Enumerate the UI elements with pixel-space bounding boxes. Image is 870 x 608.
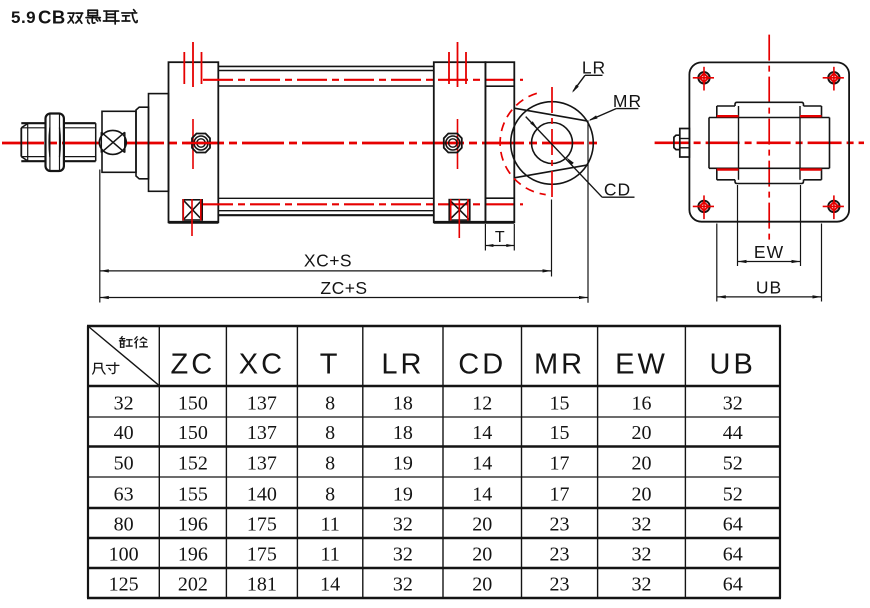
- table header diagonal: [89, 327, 159, 385]
- mounting hole bottom-right: [823, 195, 844, 219]
- gland step block: [136, 107, 149, 179]
- svg-text:80: 80: [114, 514, 134, 536]
- svg-text:20: 20: [632, 484, 652, 506]
- svg-text:MR: MR: [613, 91, 642, 111]
- clevis bottom cap (rear view): [735, 180, 804, 184]
- piston rod threaded section: [64, 123, 96, 161]
- svg-text:50: 50: [114, 453, 134, 475]
- svg-text:19: 19: [393, 484, 413, 506]
- front cap hex nut: [186, 134, 216, 153]
- main centerline (side view axis): [2, 142, 601, 145]
- svg-text:44: 44: [723, 422, 743, 444]
- svg-text:14: 14: [472, 484, 492, 506]
- svg-text:20: 20: [472, 574, 492, 596]
- mounting hole top-left: [693, 67, 714, 91]
- title "5.9 CB": [11, 7, 66, 28]
- svg-text:23: 23: [550, 544, 570, 566]
- svg-text:32: 32: [393, 544, 413, 566]
- svg-text:175: 175: [247, 514, 277, 536]
- rear cap bottom tie-rod nut X: [449, 199, 470, 238]
- svg-text:32: 32: [723, 393, 743, 415]
- red shoulder hatch lines: [717, 116, 822, 169]
- svg-text:20: 20: [632, 422, 652, 444]
- svg-text:32: 32: [632, 544, 652, 566]
- svg-text:17: 17: [550, 484, 570, 506]
- svg-text:64: 64: [723, 574, 743, 596]
- svg-text:23: 23: [550, 574, 570, 596]
- svg-text:155: 155: [178, 484, 208, 506]
- dimension table grid: [87, 326, 781, 598]
- svg-text:15: 15: [550, 422, 570, 444]
- svg-text:100: 100: [109, 544, 139, 566]
- svg-text:EW: EW: [754, 242, 784, 262]
- dimension T: [485, 224, 514, 251]
- svg-text:8: 8: [325, 393, 335, 415]
- svg-text:32: 32: [632, 514, 652, 536]
- mounting hole bottom-left: [693, 195, 714, 219]
- pivot vertical centerline: [551, 87, 553, 200]
- svg-text:11: 11: [320, 514, 339, 536]
- svg-text:ZC: ZC: [171, 349, 216, 381]
- svg-text:14: 14: [472, 422, 492, 444]
- svg-text:CD: CD: [604, 179, 631, 199]
- clevis body (rear view): [709, 106, 830, 180]
- label CD with diameter leader: [526, 117, 635, 200]
- dimension XC+S: [100, 170, 552, 303]
- svg-text:40: 40: [114, 422, 134, 444]
- svg-text:23: 23: [550, 514, 570, 536]
- svg-text:137: 137: [247, 422, 277, 444]
- svg-text:LR: LR: [381, 349, 424, 381]
- header cell CJK 缸径: [119, 337, 147, 348]
- svg-text:196: 196: [178, 544, 208, 566]
- svg-text:20: 20: [472, 514, 492, 536]
- clevis bracket plate: [485, 62, 514, 222]
- tie rod centerline bottom: [203, 203, 523, 205]
- piston rod threaded tip: [21, 123, 45, 161]
- svg-text:137: 137: [247, 453, 277, 475]
- svg-text:5.9: 5.9: [11, 8, 36, 27]
- svg-text:32: 32: [114, 393, 134, 415]
- svg-text:63: 63: [114, 484, 134, 506]
- svg-text:ZC+S: ZC+S: [320, 278, 367, 298]
- clevis pin hole circle (CD): [532, 123, 573, 164]
- svg-text:EW: EW: [615, 349, 668, 381]
- svg-text:14: 14: [320, 574, 340, 596]
- rear cap vertical centerline: [457, 119, 459, 169]
- clevis lug right (rear view): [829, 118, 831, 169]
- rod knuckle circle with cross: [99, 130, 126, 154]
- svg-text:152: 152: [178, 453, 208, 475]
- svg-text:32: 32: [393, 514, 413, 536]
- header cell CJK 尺寸: [93, 363, 119, 374]
- front end cap: [169, 62, 219, 222]
- dimension EW: [738, 185, 801, 266]
- svg-text:150: 150: [178, 422, 208, 444]
- clevis eye outer circle (MR): [511, 102, 594, 185]
- svg-text:181: 181: [247, 574, 277, 596]
- gland flange: [149, 94, 169, 192]
- svg-text:11: 11: [320, 544, 339, 566]
- svg-text:175: 175: [247, 544, 277, 566]
- svg-text:20: 20: [632, 453, 652, 475]
- cylinder tube: [218, 66, 433, 215]
- svg-text:CD: CD: [458, 349, 506, 381]
- svg-text:16: 16: [632, 393, 652, 415]
- svg-text:20: 20: [472, 544, 492, 566]
- rear cap hex nut: [444, 134, 462, 153]
- svg-text:64: 64: [723, 514, 743, 536]
- svg-text:52: 52: [723, 453, 743, 475]
- rod coupling block: [102, 111, 136, 172]
- label MR with leader: [589, 91, 643, 121]
- rear mounting plate: [689, 62, 849, 221]
- port plug (rear view): [674, 129, 690, 158]
- clevis top cap (rear view): [735, 102, 804, 106]
- svg-text:8: 8: [325, 422, 335, 444]
- front cap vertical centerline: [192, 119, 194, 169]
- svg-text:19: 19: [393, 453, 413, 475]
- tie rod centerline top: [203, 79, 523, 81]
- svg-text:32: 32: [632, 574, 652, 596]
- rear cap tie-rod red hatch (top): [449, 42, 466, 87]
- label LR with leader: [572, 58, 606, 93]
- svg-text:UB: UB: [710, 349, 756, 381]
- svg-text:MR: MR: [534, 349, 585, 381]
- front cap tie-rod red hatch (top): [184, 42, 201, 87]
- svg-text:196: 196: [178, 514, 208, 536]
- svg-text:125: 125: [109, 574, 139, 596]
- table data cells: [109, 393, 743, 596]
- svg-text:18: 18: [393, 422, 413, 444]
- rear end cap: [434, 62, 486, 222]
- svg-text:15: 15: [550, 393, 570, 415]
- dimension ZC+S: [100, 121, 588, 303]
- svg-text:17: 17: [550, 453, 570, 475]
- svg-text:32: 32: [393, 574, 413, 596]
- svg-text:137: 137: [247, 393, 277, 415]
- table header labels: [171, 349, 756, 381]
- svg-text:8: 8: [325, 484, 335, 506]
- svg-text:T: T: [320, 349, 341, 381]
- rear view horizontal centerline: [655, 142, 864, 145]
- dimension UB: [717, 224, 822, 302]
- LR swing arc (red dashed): [500, 93, 546, 194]
- svg-text:18: 18: [393, 393, 413, 415]
- mounting hole top-right: [823, 67, 844, 91]
- svg-text:8: 8: [325, 453, 335, 475]
- front cap bottom tie-rod nut X: [183, 199, 202, 236]
- svg-text:LR: LR: [582, 58, 606, 78]
- title CJK 双悬耳式: [68, 10, 137, 24]
- svg-text:150: 150: [178, 393, 208, 415]
- svg-text:12: 12: [472, 393, 492, 415]
- rod lock hex nut: [46, 114, 64, 172]
- svg-text:202: 202: [178, 574, 208, 596]
- svg-text:64: 64: [723, 544, 743, 566]
- rear view vertical centerline: [768, 35, 770, 241]
- svg-text:T: T: [495, 229, 505, 246]
- svg-text:CB: CB: [38, 7, 66, 28]
- svg-text:XC: XC: [239, 349, 285, 381]
- svg-text:UB: UB: [756, 278, 782, 298]
- svg-text:14: 14: [472, 453, 492, 475]
- clevis lug profile lines: [514, 108, 587, 178]
- svg-text:52: 52: [723, 484, 743, 506]
- svg-text:XC+S: XC+S: [304, 250, 352, 270]
- svg-text:140: 140: [247, 484, 277, 506]
- clevis lug left (rear view): [708, 118, 710, 169]
